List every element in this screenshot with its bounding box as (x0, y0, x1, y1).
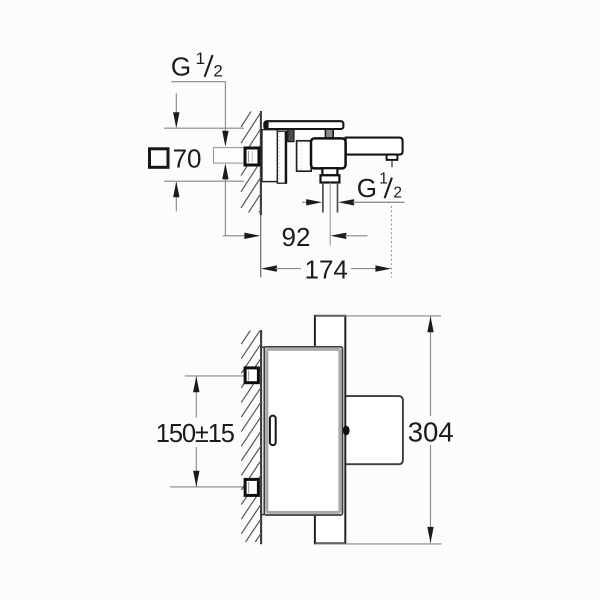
svg-text:70: 70 (173, 143, 202, 173)
svg-text:G: G (171, 51, 191, 81)
G 1/2 leader line (wall connection) (171, 82, 225, 132)
wall hatching (top view) (241, 96, 261, 240)
svg-text:92: 92 (282, 222, 311, 252)
handle slot on body edge (270, 416, 276, 446)
escutcheon plate (side) (262, 130, 278, 182)
svg-text:2: 2 (213, 62, 222, 81)
wall hatching (side view) (241, 314, 261, 563)
150 dimension line and arrows (195, 376, 197, 417)
svg-text:G: G (357, 173, 377, 203)
shower outlet nut (321, 175, 340, 182)
70 dimension extension lines (164, 127, 244, 129)
70 dimension arrows (175, 94, 177, 127)
bath spout (346, 138, 403, 155)
pipe end inside union (247, 151, 249, 163)
label square 70 (150, 149, 169, 168)
174 dimension line (261, 265, 277, 271)
svg-text:174: 174 (305, 254, 348, 284)
G 1/2 outlet dimension line (302, 201, 308, 203)
top cover plate of mixer (264, 121, 343, 129)
svg-text:1: 1 (379, 170, 388, 187)
svg-text:1: 1 (196, 49, 205, 68)
lower wall union (245, 479, 258, 495)
150 dimension extension lines (185, 375, 245, 377)
svg-text:150±15: 150±15 (156, 420, 235, 448)
svg-text:304: 304 (408, 416, 454, 447)
shower outlet neck (322, 168, 337, 175)
body top edge stub to wall (261, 346, 265, 348)
mounting bracket right (325, 129, 333, 139)
304 dimension line and arrows (430, 316, 432, 416)
wall mounting bar (315, 316, 345, 544)
nozzle drip mark (391, 160, 393, 167)
spout nozzle (387, 155, 398, 160)
temperature stop button (343, 426, 350, 435)
wall extension line down to 174 dimension (260, 215, 262, 278)
nozzle extension line (dotted) (390, 206, 392, 278)
body bottom edge stub to wall (261, 514, 265, 516)
escutcheon cover plate (277, 131, 286, 183)
connector sleeve (297, 141, 312, 171)
upper wall union (245, 368, 258, 383)
wall line (top view) (260, 111, 262, 215)
supply pipe nipple through wall (214, 148, 247, 164)
pipe centre line (329, 183, 331, 246)
304 dimension extension lines (315, 315, 441, 317)
92 dimension line (223, 235, 247, 237)
wall line (side view) (260, 330, 262, 544)
spout block (side view) (345, 396, 403, 464)
thermostat valve body (311, 138, 346, 168)
mounting bracket left (288, 129, 294, 141)
svg-text:2: 2 (393, 184, 402, 201)
mixer body (side view) (264, 347, 342, 515)
shower outlet pipe (322, 183, 324, 213)
wall union fitting (top view) (245, 148, 259, 165)
